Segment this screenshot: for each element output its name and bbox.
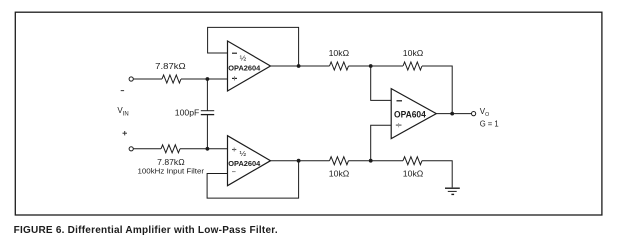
wire [133, 148, 161, 150]
wire [133, 78, 162, 80]
svg-text:10kΩ: 10kΩ [329, 170, 350, 179]
svg-text:OPA604: OPA604 [394, 110, 427, 120]
output terminal VO [472, 112, 476, 116]
input terminal VIN- [129, 77, 133, 81]
node: U1A output junction [297, 64, 301, 68]
svg-text:100kHz Input Filter: 100kHz Input Filter [138, 166, 205, 175]
wire [180, 148, 228, 150]
wire [422, 161, 452, 188]
svg-text:½: ½ [240, 55, 247, 63]
svg-text:100pF: 100pF [175, 108, 200, 117]
resistor R1 7.87k [162, 75, 181, 83]
wire [436, 113, 471, 115]
svg-text:G = 1: G = 1 [480, 120, 500, 129]
wire [349, 160, 404, 162]
wire (U1A feedback loop) [208, 27, 299, 66]
capacitor C1 100pF [201, 111, 214, 115]
input terminal VIN+ [129, 147, 133, 151]
label VIN minus sign [121, 90, 124, 92]
resistor R5 10k [330, 157, 349, 165]
resistor R2 7.87k [161, 145, 180, 153]
wire [422, 66, 452, 114]
wire [371, 125, 392, 160]
node: U1B output junction [297, 159, 301, 163]
op-amp U1A half OPA2604 (top) [228, 41, 271, 91]
node: U2 non-inverting input junction [369, 159, 373, 163]
resistor R6 10k [403, 157, 422, 165]
wire [371, 66, 392, 100]
label VIN plus sign [123, 131, 128, 135]
resistor R4 10k [403, 62, 422, 70]
node: top input junction [206, 77, 210, 81]
wire [206, 79, 208, 111]
wire [206, 115, 208, 149]
svg-text:½: ½ [240, 150, 247, 158]
svg-text:7.87kΩ: 7.87kΩ [155, 62, 186, 71]
resistor R3 10k [330, 62, 349, 70]
wire [349, 65, 404, 67]
op-amp U2 OPA604 [391, 89, 436, 139]
wire [181, 78, 228, 80]
svg-text:VO: VO [480, 107, 489, 118]
svg-text:FIGURE 6. Differential Amplifi: FIGURE 6. Differential Amplifier with Lo… [14, 225, 278, 236]
ground [445, 188, 460, 194]
svg-text:10kΩ: 10kΩ [329, 49, 350, 58]
svg-text:OPA2604: OPA2604 [228, 63, 261, 72]
node: U2 inverting input junction [369, 64, 373, 68]
node: output junction [450, 112, 454, 116]
svg-text:VIN: VIN [117, 106, 128, 118]
svg-text:OPA2604: OPA2604 [228, 159, 261, 168]
wire (U1B feedback loop) [207, 161, 299, 198]
wire [271, 65, 330, 67]
wire [271, 160, 330, 162]
node: bottom input junction [206, 147, 210, 151]
op-amp U1B half OPA2604 (bottom) [228, 136, 271, 186]
svg-text:10kΩ: 10kΩ [403, 170, 424, 179]
svg-text:10kΩ: 10kΩ [403, 49, 424, 58]
